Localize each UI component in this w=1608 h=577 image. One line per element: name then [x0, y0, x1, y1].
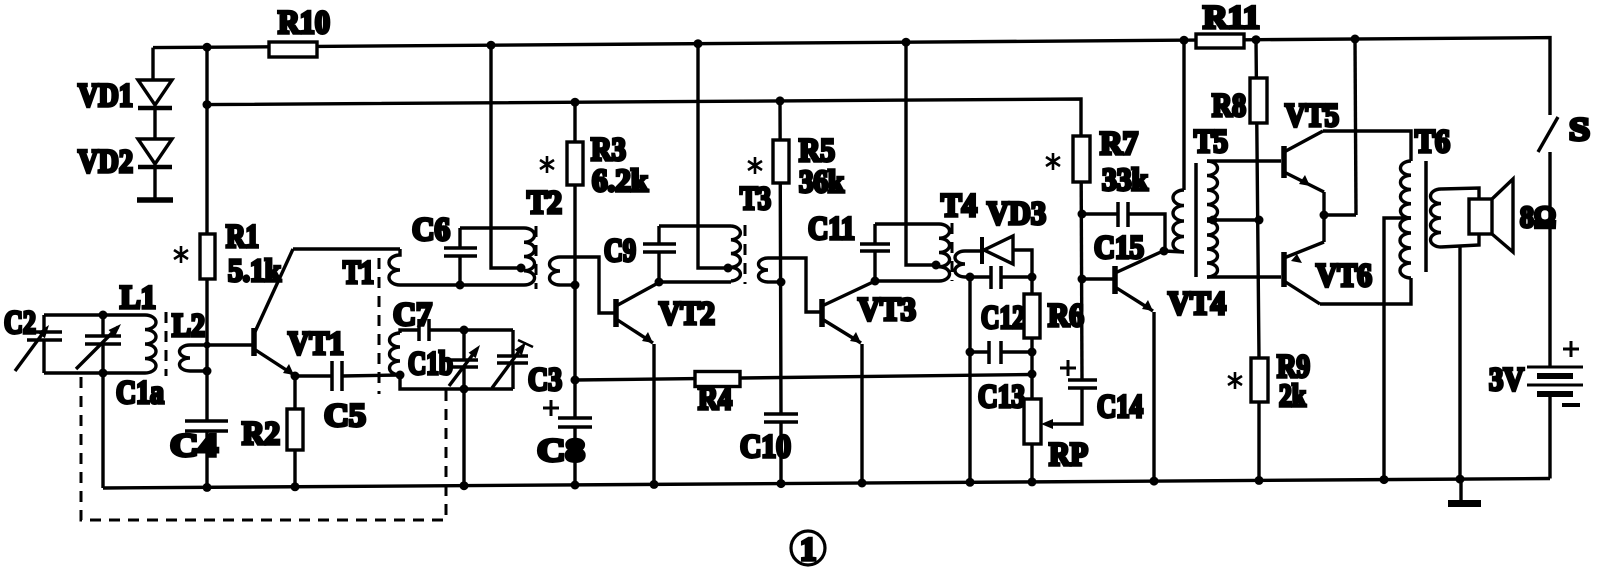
node dot VT1 emitter [291, 372, 300, 381]
svg-text:VD1: VD1 [78, 78, 133, 114]
wire tank bottom to ground bus [101, 373, 104, 488]
svg-text:33k: 33k [1102, 161, 1148, 197]
wire antenna tank top [44, 313, 145, 316]
wire T5 secondary bottom to VT6 base [1207, 275, 1281, 278]
transformer T1 secondary winding [390, 333, 401, 375]
svg-text:L2: L2 [172, 308, 205, 344]
transistor VT5 [1284, 131, 1324, 192]
wire T1 primary bottom to T2 tank bottom [400, 283, 524, 286]
transformer T4 primary winding [939, 224, 950, 281]
svg-text:T1: T1 [343, 255, 374, 291]
transformer T2 secondary winding [550, 257, 561, 285]
wire top rail drop to T5 primary [1182, 40, 1185, 190]
capacitor C1b variable [449, 330, 478, 389]
wire VT1 emitter node down to R2 [293, 376, 296, 409]
star mark R7 [1046, 153, 1060, 170]
wire T1 secondary top to C7 [400, 330, 419, 333]
wire B+ drop to T4 tap [906, 42, 939, 265]
star mark R1 [174, 246, 188, 263]
node dot T4 tap [932, 261, 941, 270]
wire L2 bottom to node [190, 369, 207, 372]
node dots R7 line [1078, 210, 1087, 284]
wire ground bus [103, 479, 1550, 489]
wire VT5 collector to T6 primary top [1323, 131, 1411, 161]
wire VD3 to R6 top [1013, 250, 1032, 294]
transformer T5 core (solid) [1194, 163, 1198, 277]
svg-text:VT5: VT5 [1285, 98, 1339, 134]
node dot VT3 collector [871, 277, 880, 286]
transformer T6 primary upper winding [1400, 161, 1411, 218]
wire top supply rail [153, 38, 1550, 115]
wire T5 secondary top to VT5 base [1207, 159, 1281, 162]
resistor R8 [1250, 78, 1267, 123]
transistor VT2 [616, 283, 658, 343]
wire emitter to C5 [295, 374, 332, 377]
node dots at base/L2/C4 line [203, 342, 212, 376]
capacitor C3 variable [492, 340, 533, 388]
wire T4 secondary top to VD3 [965, 249, 982, 252]
transformer T4 core (dashed) [951, 223, 954, 281]
dashed gang link C1a-C1b [81, 377, 446, 520]
node dot common emitters [1320, 211, 1329, 220]
svg-text:C3: C3 [528, 362, 562, 398]
capacitor C6 [444, 228, 477, 285]
wire RP bottom to ground bus [1030, 444, 1033, 483]
wire T6 center tap to ground [1384, 218, 1411, 480]
node dots on ground bus [203, 475, 1465, 492]
ground symbol [1448, 479, 1481, 507]
svg-text:C5: C5 [324, 398, 366, 434]
wire T5 primary bottom to collector node [1164, 251, 1184, 252]
ferrite core of L1/L2 (dashed) [165, 312, 168, 376]
resistor R6 [1024, 294, 1040, 338]
node dot R5 line [777, 278, 786, 287]
transformer T5 secondary upper winding [1207, 161, 1218, 219]
node dot VD3/R6/C12 [1028, 273, 1037, 282]
svg-text:C15: C15 [1094, 230, 1144, 266]
wire C7 to oscillator tank top [429, 328, 513, 331]
wire rail drop x=1356 [1355, 39, 1356, 215]
node dot T4 secondary bottom [966, 273, 975, 282]
svg-text:C12: C12 [981, 300, 1025, 336]
svg-text:C2: C2 [4, 305, 36, 341]
wire switch to battery [1548, 152, 1551, 367]
capacitor C13 [970, 341, 1032, 364]
resistor R9 [1251, 358, 1268, 402]
svg-text:R11: R11 [1203, 0, 1260, 36]
capacitor C2 variable [15, 315, 62, 373]
wire T4 tank bottom [875, 279, 939, 282]
node dots on R3 line [571, 281, 580, 385]
transformer T2 primary winding [524, 228, 535, 285]
resistor R10 [269, 42, 317, 57]
battery 3V [1527, 341, 1583, 405]
resistor R1 [200, 234, 215, 279]
wire VT1 collector to T1 primary [293, 247, 400, 250]
svg-text:C8: C8 [537, 433, 585, 469]
diode VD3 [982, 236, 1013, 264]
capacitor C14 electrolytic [1060, 360, 1097, 388]
wire T2 secondary bottom to R3 line [560, 283, 575, 286]
wire T5 center tap to R8/R9 [1207, 218, 1259, 221]
svg-text:R4: R4 [698, 381, 732, 417]
transformer T6 core (solid) [1424, 161, 1428, 272]
transformer T5 primary winding [1173, 190, 1184, 252]
wire R7 line from second rail end down to C14 [1081, 136, 1082, 380]
wire C4 to ground bus [205, 431, 208, 488]
wire T3 secondary bottom to R5 line [768, 280, 781, 283]
svg-text:5.1k: 5.1k [228, 252, 281, 288]
resistor R3 [567, 142, 583, 185]
svg-text:T5: T5 [1194, 124, 1228, 160]
svg-text:T6: T6 [1415, 124, 1450, 160]
switch S lever [1538, 117, 1558, 152]
wire VT2 emitter to ground bus [652, 344, 655, 486]
svg-text:VT1: VT1 [288, 326, 344, 362]
node dot T2 tap [517, 264, 526, 273]
wire T6 secondary bottom to speaker and ground [1441, 234, 1479, 247]
transformer T6 primary lower winding [1400, 218, 1411, 278]
node dots antenna tank [99, 311, 108, 378]
svg-text:C9: C9 [604, 233, 636, 269]
capacitor C12 [970, 266, 1032, 289]
wire T4 tank top [875, 222, 939, 225]
svg-text:R2: R2 [242, 416, 280, 452]
svg-text:T3: T3 [740, 181, 771, 217]
wire T2 secondary top to VT2 base [560, 257, 614, 313]
svg-text:VT3: VT3 [858, 292, 916, 328]
wire R5 line: rail to C10 to ground [780, 101, 781, 486]
transistor VT6 [1284, 242, 1324, 304]
figure number circled 1 [791, 531, 825, 568]
wire T3 tank bottom [659, 280, 731, 283]
wire T3 secondary top to VT3 base [768, 258, 820, 312]
svg-text:VD3: VD3 [987, 196, 1046, 232]
svg-text:T2: T2 [527, 185, 562, 221]
capacitor C7 [419, 319, 429, 341]
wire L2 top to VT1 base [190, 343, 252, 346]
resistor R2 [287, 409, 303, 450]
node dots oscillator tank [460, 326, 469, 394]
wire second decoupled rail [207, 99, 1081, 136]
capacitor C11 [860, 224, 890, 281]
svg-text:R1: R1 [226, 219, 259, 255]
wire x=207 from top rail through second rail to R1 [205, 47, 208, 234]
wire VT4 emitter to ground bus [1152, 312, 1155, 482]
svg-text:C13: C13 [978, 379, 1025, 415]
wire VT6 collector to T6 primary bottom [1320, 278, 1411, 304]
wire VT5 emitter down to common node [1322, 192, 1325, 215]
svg-text:C6: C6 [412, 212, 450, 248]
wire battery minus to ground bus [1548, 394, 1551, 479]
transformer T1 core (dashed) [378, 258, 381, 394]
svg-text:36k: 36k [799, 163, 844, 199]
svg-text:C10: C10 [740, 429, 791, 465]
svg-text:2k: 2k [1279, 377, 1306, 413]
node dots center tap [1209, 216, 1264, 225]
capacitor C9 [643, 226, 676, 282]
transformer T6 secondary winding [1431, 189, 1442, 247]
wire oscillator tank right branch [511, 330, 514, 389]
wire VD1/VD2 branch from rail [151, 48, 154, 80]
svg-text:C11: C11 [808, 211, 855, 247]
node dot VT4 collector / T5 primary bottom [1160, 247, 1169, 256]
resistor R4 [695, 372, 740, 387]
wire T4 secondary bottom line [965, 277, 970, 484]
svg-text:L1: L1 [120, 280, 156, 316]
wire oscillator tank bottom [400, 375, 513, 389]
svg-text:3V: 3V [1489, 362, 1524, 398]
wire B+ drop to T3 tap [698, 44, 731, 268]
transformer T1 primary winding [389, 249, 400, 285]
inductor L2 [180, 345, 191, 371]
svg-text:S: S [1569, 112, 1590, 148]
speaker horn [1492, 179, 1513, 252]
diode VD2 [138, 139, 172, 199]
svg-text:VT4: VT4 [1168, 286, 1226, 322]
wire T3 tank top [659, 224, 731, 227]
wire VT3 emitter to ground bus [860, 344, 863, 485]
node dots C13 ends and RP top [966, 348, 1037, 379]
wire R1 bottom to base node, L2 node, C4 [205, 279, 208, 421]
wire antenna tank bottom [44, 371, 145, 374]
potentiometer RP [1024, 399, 1041, 444]
capacitor C5 [332, 361, 342, 391]
wire T2 tank top [460, 226, 524, 229]
star mark R5 [748, 157, 762, 174]
resistor R11 [1196, 34, 1244, 48]
capacitor C8 electrolytic [543, 400, 592, 427]
svg-text:R10: R10 [278, 5, 330, 41]
wire R3 line: rail to C8 to ground [573, 102, 576, 487]
svg-text:C7: C7 [393, 297, 432, 333]
resistor R5 [773, 140, 789, 183]
node dot T1 secondary tap [396, 371, 405, 380]
svg-text:R7: R7 [1100, 126, 1138, 162]
svg-text:C14: C14 [1097, 389, 1143, 425]
node dot C6 bottom [456, 281, 465, 290]
svg-text:VD2: VD2 [78, 144, 133, 180]
wire emitters node to rail drop [1324, 213, 1356, 216]
wire R6 bottom to RP [1030, 338, 1033, 399]
wire AGC line C8 node to RP top with R4 [575, 375, 1032, 381]
transformer T2 core (dashed) [535, 226, 538, 289]
node junction dots on top rail [203, 35, 1360, 52]
ground termination bar under VD2 [137, 197, 173, 203]
wire speaker return to ground bus [1458, 246, 1461, 479]
svg-text:R6: R6 [1048, 298, 1084, 334]
svg-text:1: 1 [800, 532, 817, 568]
svg-text:RP: RP [1049, 437, 1088, 473]
wire RP wiper to C14 [1048, 388, 1082, 424]
svg-text:C1a: C1a [116, 375, 164, 411]
inductor L1 [145, 315, 156, 373]
star mark R3 [540, 156, 554, 173]
capacitor C10 [764, 414, 798, 422]
transistor VT3 [822, 282, 873, 343]
resistor R7 [1073, 136, 1090, 182]
transformer T3 secondary winding [759, 258, 769, 282]
node dot VT2 collector [655, 278, 664, 287]
wire VT6 emitter up to common node [1322, 215, 1325, 242]
capacitor C15 [1082, 202, 1165, 251]
transistor VT1 [254, 249, 294, 375]
arrow RP wiper [1041, 419, 1053, 429]
node junction dots on second rail [203, 96, 785, 109]
svg-text:VT6: VT6 [1316, 258, 1372, 294]
transformer T3 primary winding [731, 226, 740, 281]
wire C1b branch to ground bus [462, 389, 465, 487]
star mark R9 [1228, 372, 1242, 389]
wire R8/R9 line [1256, 40, 1259, 481]
wire C5 to T1 secondary tap [342, 375, 400, 376]
transformer T5 secondary lower winding [1207, 221, 1218, 277]
svg-text:C1b: C1b [408, 346, 453, 382]
svg-text:6.2k: 6.2k [592, 162, 648, 198]
wire R2 to ground bus [293, 450, 296, 488]
diode VD1 [138, 80, 172, 139]
svg-text:T4: T4 [941, 188, 977, 224]
svg-text:VT2: VT2 [659, 296, 715, 332]
wire B+ drop to T2 tap [491, 45, 524, 268]
svg-text:8Ω: 8Ω [1520, 199, 1556, 234]
node dot T3 tap [724, 264, 733, 273]
svg-text:R8: R8 [1212, 88, 1246, 124]
svg-text:C4: C4 [170, 428, 218, 464]
transformer T3 core (dashed) [744, 225, 747, 284]
wire T6 secondary top to speaker [1441, 188, 1479, 199]
capacitor C1a variable [76, 315, 121, 373]
capacitor C4 [185, 421, 228, 431]
transistor VT4 [1082, 251, 1163, 311]
speaker voice coil [1469, 199, 1492, 234]
transformer T4 secondary winding [955, 251, 965, 277]
